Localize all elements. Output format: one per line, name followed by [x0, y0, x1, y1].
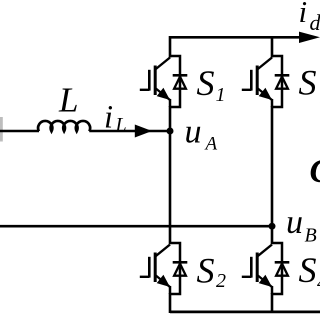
diode D4 (antiparallel with S4) — [275, 262, 290, 275]
wire: S1 emitter down through node A to S2 collector — [169, 106, 172, 244]
svg-text:u: u — [286, 204, 303, 241]
transistor S4 (IGBT) — [242, 243, 282, 294]
inductor L — [38, 121, 90, 131]
wire: mid horizontal from left edge to node B (crosses left leg, no junction) — [0, 225, 270, 228]
wire: S2 emitter down to bottom rail corner — [169, 293, 172, 313]
diode D2 (antiparallel with S2) — [173, 262, 188, 275]
wire: bottom DC rail — [170, 310, 320, 313]
diode D3 (antiparallel with S3) — [275, 75, 290, 88]
svg-text:S: S — [299, 250, 317, 290]
transistor S2 (IGBT) — [140, 243, 180, 294]
transistor S3 (IGBT) — [242, 56, 282, 107]
svg-text:i: i — [104, 100, 113, 136]
svg-text:C: C — [310, 153, 320, 190]
svg-text:d: d — [310, 10, 320, 35]
wire: top rail down to S3 collector — [271, 36, 274, 58]
label S4 — [299, 250, 320, 294]
svg-text:L: L — [115, 114, 127, 136]
svg-text:u: u — [185, 114, 202, 151]
wire: top DC rail — [170, 36, 303, 39]
label S1 — [197, 63, 226, 106]
node B junction dot — [269, 223, 276, 230]
label u_A (node A voltage) — [185, 114, 218, 155]
wire: input from left edge to inductor — [0, 130, 39, 133]
svg-text:i: i — [299, 0, 308, 29]
svg-text:B: B — [305, 225, 317, 247]
svg-text:S: S — [197, 63, 215, 103]
current arrow i_L — [135, 125, 152, 138]
svg-text:A: A — [204, 134, 218, 155]
gray cropped terminal stub at left edge — [0, 117, 3, 142]
label i_L — [104, 100, 127, 137]
diode D1 (antiparallel with S1) — [173, 75, 188, 88]
label i_d — [299, 0, 320, 35]
svg-text:S: S — [299, 63, 317, 103]
transistor S1 (IGBT) — [140, 56, 180, 107]
label S3 — [299, 63, 320, 109]
svg-text:S: S — [197, 250, 215, 290]
svg-text:2: 2 — [216, 270, 226, 292]
svg-text:L: L — [58, 81, 78, 120]
wire: S4 emitter to bottom rail — [271, 293, 274, 313]
wire: S3 emitter down through node B to S4 collector — [271, 106, 274, 244]
label S2 — [197, 250, 227, 292]
svg-text:1: 1 — [216, 84, 226, 106]
wire: top rail down to S1 collector — [169, 36, 172, 58]
wire: inductor to node A — [89, 130, 168, 133]
node A junction dot — [167, 128, 174, 135]
label u_B (node B voltage) — [286, 204, 317, 247]
current arrow i_d — [299, 32, 320, 43]
